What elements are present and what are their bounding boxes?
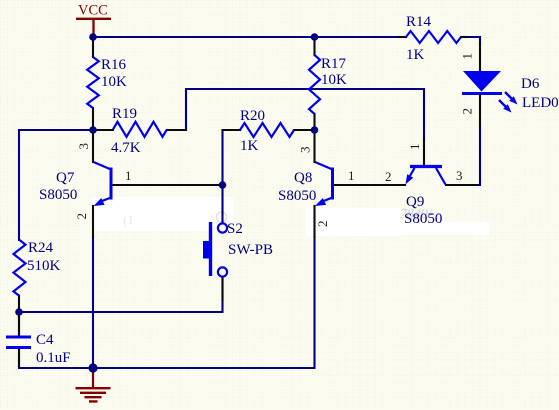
svg-text:1K: 1K [240,138,259,154]
pin R16 top [92,39,94,57]
pin C4 top [18,313,20,335]
svg-text:Q7: Q7 [56,170,75,186]
wire Q7 emitter down to ground rail [92,237,94,368]
svg-text:1: 1 [125,168,132,183]
pin R14 left [399,36,406,38]
ground [92,368,94,387]
svg-text:S2: S2 [227,221,243,237]
svg-text:Q8: Q8 [294,170,312,186]
svg-text:3: 3 [456,168,463,183]
svg-text:R17: R17 [321,56,347,72]
pin Q7 collector [92,130,94,162]
transistor Q7 [110,168,113,200]
wire S2 bottom to left junction [19,277,223,312]
junction node 4 [311,126,319,134]
svg-text:(1: (1 [123,212,134,227]
pin R17 bottom [313,114,315,130]
pin Q9 base pin 1 [423,140,425,165]
wire C4 bottom to ground rail [19,237,315,368]
switch S2 [218,223,227,232]
pin Q7 base wire [113,184,223,186]
svg-text:S8050: S8050 [39,187,77,203]
wire R20/S2 vertical [221,130,223,223]
white patch right upper (erased area) [306,208,400,236]
svg-text:R20: R20 [240,108,265,124]
junction node 2 [311,33,319,41]
svg-text:4.7K: 4.7K [111,140,141,156]
resistor R14 [406,31,461,43]
wire junction to C4 top [18,312,20,335]
resistor R19 [113,122,167,137]
svg-text:1: 1 [460,53,475,60]
svg-text:1: 1 [407,144,422,151]
pin LED anode pin 1 [479,44,481,70]
svg-text:SW-PB: SW-PB [228,242,273,258]
wire LED cathode down to Q9 collector [474,125,480,185]
pin Q8 base / Q9 emitter wire [335,184,406,186]
svg-text:C4: C4 [36,332,54,348]
pin R19 left [95,129,113,131]
pin R19 right [167,129,186,131]
svg-text:1K: 1K [406,47,425,63]
resistor R17 [309,55,320,114]
wire left rail down to R24 [18,130,20,240]
LED D6 [463,71,501,92]
resistor R24 [14,240,26,296]
pin C4 bottom [18,349,20,366]
resistor R16 [87,57,99,108]
svg-text:S8050: S8050 [278,188,316,204]
pin R24 bottom [18,296,20,311]
pin R20 left [223,129,241,131]
pin S2 bottom [221,277,223,300]
svg-text:10K: 10K [321,72,347,88]
ghost circle artifact [217,212,227,222]
svg-text:2: 2 [385,169,392,184]
pin Q7 emitter [92,206,94,237]
svg-text:2: 2 [74,213,89,220]
junction node 7 [88,363,97,372]
svg-text:10K: 10K [101,74,127,90]
svg-text:D6: D6 [521,76,540,92]
transistor Q9 [410,165,442,168]
svg-text:3: 3 [298,147,313,154]
svg-text:3: 3 [76,143,91,150]
white patch left (erased area) [92,197,233,231]
svg-text:S8050: S8050 [404,211,442,227]
svg-text:R24: R24 [28,240,54,256]
wire VCC top rail [93,36,399,38]
capacitor C4 [6,337,31,348]
pin LED cathode pin 2 [479,96,481,125]
svg-text:1: 1 [348,168,355,183]
svg-text:LED0: LED0 [522,95,559,111]
wire R16 bottom to left rail [19,129,93,131]
svg-text:R16: R16 [101,57,127,73]
svg-text:R14: R14 [406,14,432,30]
pin R16 bottom [92,108,94,130]
svg-text:VCC: VCC [78,3,108,19]
junction node 5 [219,181,227,189]
wire R14 right to LED [466,37,480,44]
wire R19 up-over to Q9 base pin [186,89,424,140]
junction node 3 [89,126,97,134]
svg-text:0.1uF: 0.1uF [36,350,71,366]
resistor R20 [240,123,294,137]
pin Q8 collector [313,130,315,162]
svg-text:2: 2 [460,108,475,115]
pin R17 top [313,39,315,55]
pin R14 right [461,36,466,38]
svg-text:R19: R19 [112,106,137,122]
white patch right lower (erased area) [317,222,489,235]
VCC power symbol [76,19,111,36]
junction node 6 [15,308,23,316]
svg-text:510K: 510K [27,258,61,274]
svg-text:2: 2 [315,221,330,228]
pin R20 right [294,129,313,131]
transistor Q8 [331,168,334,200]
pin Q8 emitter [313,206,315,237]
svg-text:Q9: Q9 [406,194,424,210]
pin Q9 collector pin 3 [446,184,475,186]
junction node 1 [89,33,97,41]
